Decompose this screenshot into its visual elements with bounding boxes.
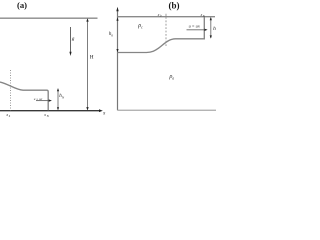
svg-text:u = uN: u = uN	[34, 97, 43, 101]
svg-text:H: H	[90, 55, 94, 61]
svg-text:a: a	[172, 76, 174, 80]
svg-text:h: h	[213, 26, 216, 32]
svg-text:(a): (a)	[17, 0, 27, 10]
svg-text:N: N	[202, 15, 205, 18]
svg-text:u = uN: u = uN	[189, 24, 201, 29]
svg-text:(b): (b)	[169, 1, 180, 11]
